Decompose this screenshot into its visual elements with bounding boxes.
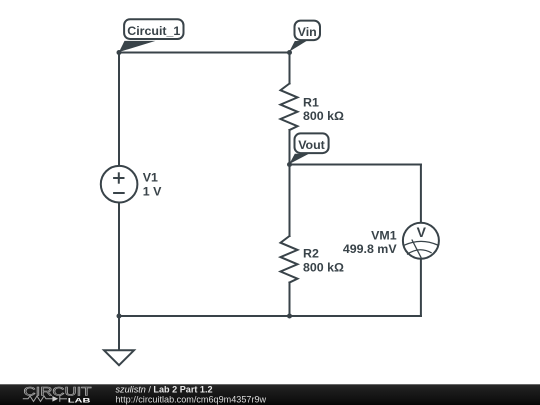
svg-text:V: V xyxy=(417,224,427,240)
svg-text:LAB: LAB xyxy=(68,397,91,404)
svg-text:szulistn / Lab 2 Part 1.2: szulistn / Lab 2 Part 1.2 xyxy=(116,385,213,395)
svg-text:R2: R2 xyxy=(303,246,319,260)
svg-text:VM1: VM1 xyxy=(371,228,397,242)
svg-text:http://circuitlab.com/cm6q9m43: http://circuitlab.com/cm6q9m4357r9w xyxy=(116,394,267,404)
svg-text:V1: V1 xyxy=(143,171,158,185)
svg-text:1 V: 1 V xyxy=(143,185,162,199)
svg-text:800 kΩ: 800 kΩ xyxy=(303,109,344,123)
svg-text:Vin: Vin xyxy=(298,25,317,39)
svg-text:CIRCUIT: CIRCUIT xyxy=(24,384,93,398)
svg-text:Circuit_1: Circuit_1 xyxy=(127,24,180,38)
svg-text:Vout: Vout xyxy=(298,138,325,152)
svg-text:800 kΩ: 800 kΩ xyxy=(303,260,344,274)
svg-text:499.8 mV: 499.8 mV xyxy=(343,242,397,256)
svg-text:R1: R1 xyxy=(303,96,319,110)
